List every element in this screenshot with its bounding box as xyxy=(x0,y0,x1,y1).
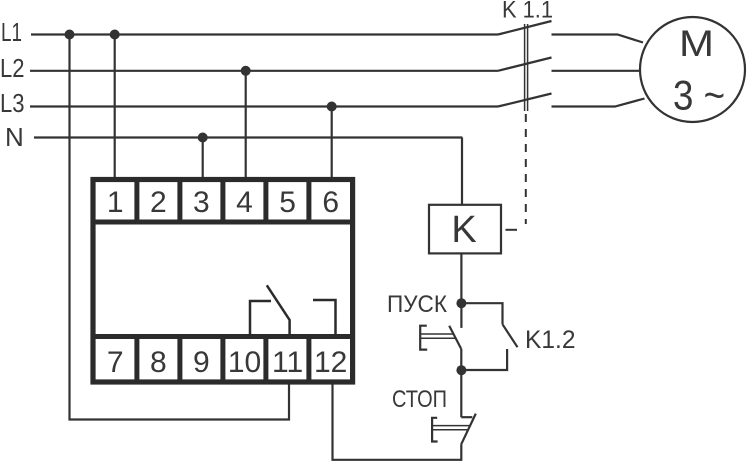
stop button seat jog xyxy=(461,416,472,418)
svg-text:3 ~: 3 ~ xyxy=(673,72,725,119)
wire L2 bus xyxy=(30,70,498,72)
wire N bus xyxy=(34,136,462,138)
wire L3 from K1.1 to motor xyxy=(552,99,645,107)
stop button plunger upper line xyxy=(433,425,470,427)
terminal separator 1|2 xyxy=(134,177,139,222)
node junction above start button xyxy=(456,298,466,308)
terminal separator 11|12 xyxy=(306,337,311,383)
terminal separator 7|8 xyxy=(134,337,139,383)
wire L1 from K1.1 to motor xyxy=(552,35,644,43)
svg-text:N: N xyxy=(5,122,24,152)
svg-text:M: M xyxy=(679,23,714,64)
svg-text:K: K xyxy=(451,209,476,251)
terminal separator 5|6 xyxy=(306,177,311,222)
svg-text:3: 3 xyxy=(193,186,210,219)
terminal separator 9|10 xyxy=(220,337,225,383)
junction on L2 feeding terminal 4 xyxy=(241,66,251,76)
junction on L3 feeding terminal 6 xyxy=(327,102,337,112)
relay unit bottom terminal row top edge xyxy=(92,334,353,339)
motor M 3~ circle xyxy=(640,17,745,122)
auxiliary contact K1.2 branch upper wire xyxy=(461,303,502,324)
terminal separator 10|11 xyxy=(263,337,268,383)
svg-text:L1: L1 xyxy=(1,17,22,47)
auxiliary contact K1.2 lower wire xyxy=(461,349,507,370)
wire L2 to terminal 4 xyxy=(245,71,247,178)
wire start node down to start contact xyxy=(460,303,462,328)
stop button plunger lower line xyxy=(433,429,468,431)
contactor coil K box xyxy=(429,205,501,254)
contact K1.1 linkage bar right line xyxy=(527,24,529,111)
start button actuator bracket xyxy=(420,326,427,350)
junction on L1 feeding left loop xyxy=(65,30,75,40)
wire terminal 12 to stop button xyxy=(333,383,462,460)
terminal separator 3|4 xyxy=(220,177,225,222)
stop button NC blade xyxy=(461,414,476,445)
contact K1.1 blade phase L2 xyxy=(498,58,552,71)
svg-text:8: 8 xyxy=(150,346,167,379)
wire start contact to lower node xyxy=(460,349,462,417)
wire N to terminal 3 xyxy=(202,138,204,179)
stop button actuator bracket xyxy=(432,418,438,442)
wire N to coil K top xyxy=(461,138,463,206)
auxiliary contact K1.2 blade xyxy=(503,324,518,347)
dashed link horizontal dash near coil K xyxy=(506,229,518,231)
relay internal fixed contact at terminal 10 xyxy=(250,301,271,337)
relay unit outline xyxy=(93,180,353,383)
svg-text:K 1.1: K 1.1 xyxy=(502,0,553,24)
terminal separator 8|9 xyxy=(177,337,182,383)
contact K1.1 blade phase L1 xyxy=(498,21,552,35)
svg-text:10: 10 xyxy=(228,346,261,379)
relay unit top terminal row bottom edge xyxy=(92,220,353,225)
wire left loop from L1 to terminal 11 xyxy=(70,35,290,420)
terminal separator 2|3 xyxy=(177,177,182,222)
svg-text:12: 12 xyxy=(314,346,347,379)
wire L3 bus xyxy=(30,105,498,107)
svg-text:ПУСК: ПУСК xyxy=(387,291,447,318)
svg-text:L3: L3 xyxy=(0,88,25,118)
start button NO blade xyxy=(449,326,461,349)
relay internal moving blade from terminal 11 xyxy=(267,285,290,336)
start button plunger upper line xyxy=(421,333,454,335)
svg-text:K1.2: K1.2 xyxy=(525,326,576,354)
wire L3 to terminal 6 xyxy=(331,107,333,179)
svg-text:11: 11 xyxy=(272,346,303,379)
wire L2 from K1.1 to motor xyxy=(552,70,641,72)
svg-text:L2: L2 xyxy=(0,53,25,83)
svg-text:9: 9 xyxy=(193,346,210,379)
svg-text:1: 1 xyxy=(107,186,124,219)
svg-text:2: 2 xyxy=(150,186,167,219)
relay internal fixed contact at terminal 12 xyxy=(313,300,336,337)
node junction below start button xyxy=(456,365,466,375)
wire L1 bus xyxy=(31,33,498,35)
wire L1 to terminal 1 xyxy=(114,35,116,179)
wire coil K bottom to start node xyxy=(460,253,462,303)
start button plunger lower line xyxy=(421,337,456,339)
contact K1.1 linkage bar left line xyxy=(524,24,526,111)
svg-text:СТОП: СТОП xyxy=(392,386,447,413)
svg-text:6: 6 xyxy=(322,186,339,219)
svg-text:5: 5 xyxy=(279,186,296,219)
svg-text:7: 7 xyxy=(107,346,124,379)
svg-text:4: 4 xyxy=(236,186,253,219)
contact K1.1 blade phase L3 xyxy=(498,94,552,107)
dashed mechanical link from K1.1 to coil K xyxy=(525,114,527,224)
junction on L1 feeding terminal 1 xyxy=(110,30,120,40)
junction on N feeding terminal 3 xyxy=(198,133,208,143)
terminal separator 4|5 xyxy=(263,177,268,222)
